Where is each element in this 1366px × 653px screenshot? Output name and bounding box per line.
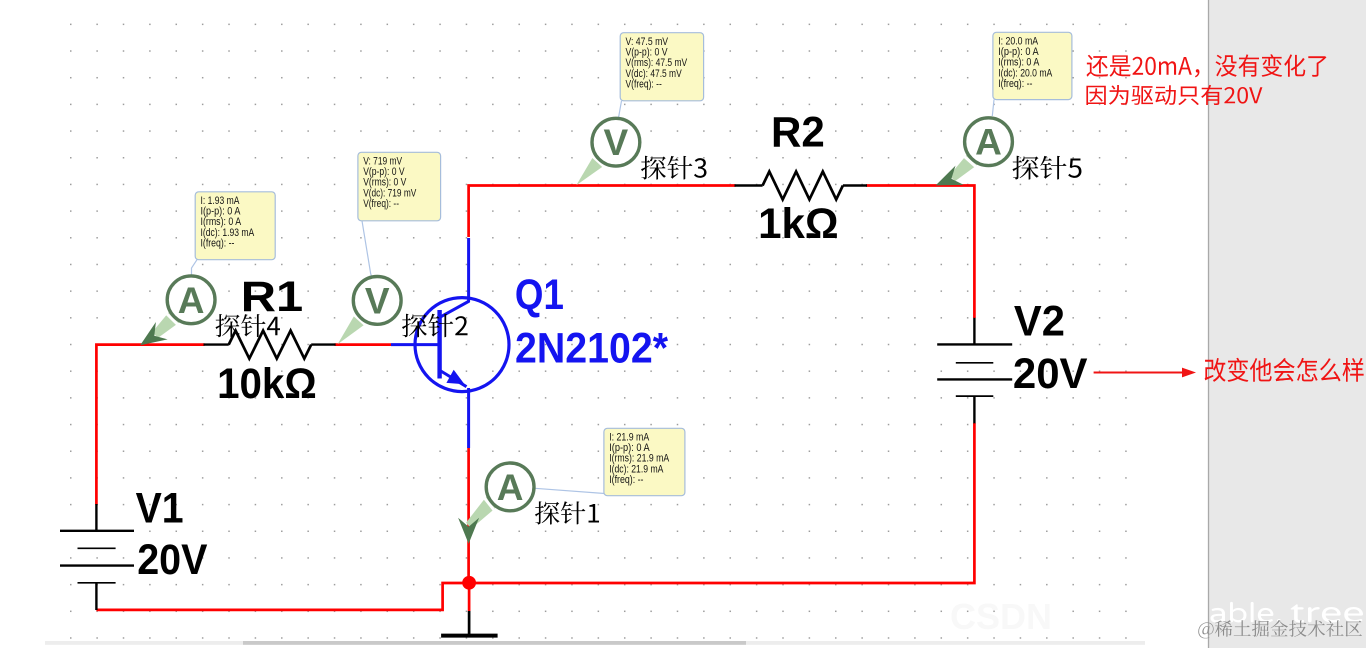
svg-text:CSDN: CSDN — [950, 596, 1052, 637]
wire Q1 emitter down — [467, 447, 470, 583]
svg-text:1kΩ: 1kΩ — [758, 200, 839, 248]
leader line probe 4 tooltip — [192, 260, 198, 275]
probe label 探针4 — [216, 314, 280, 337]
svg-text:V(freq): --: V(freq): -- — [363, 198, 399, 210]
svg-text:A: A — [497, 467, 524, 508]
probe label 探针3 — [641, 156, 706, 180]
svg-text:I(freq): --: I(freq): -- — [609, 474, 644, 486]
leader line probe 1 tooltip — [535, 488, 605, 493]
svg-text:20V: 20V — [137, 536, 207, 584]
tooltip probe 2 (V: 719 mV) — [358, 152, 441, 221]
leader line probe 2 tooltip — [362, 221, 372, 276]
tooltip probe 5 (I: 20.0 mA) — [993, 32, 1072, 99]
voltage probe V (探针2) — [338, 277, 402, 345]
svg-text:R2: R2 — [771, 109, 825, 157]
red note line 1: 还是20mA，没有变化了 — [1086, 54, 1326, 77]
voltage probe V (探针3) — [576, 118, 640, 185]
wire R2 to V2 plus — [866, 186, 974, 319]
transistor Q1 (NPN) — [391, 238, 509, 448]
watermark able.tree — [1211, 602, 1282, 623]
svg-text:R1: R1 — [241, 273, 303, 321]
svg-text:V(freq): --: V(freq): -- — [626, 78, 663, 90]
wire V1 plus to R1 (left vertical + base horizontal) — [96, 345, 204, 505]
svg-text:A: A — [178, 280, 205, 321]
svg-text:V: V — [604, 122, 629, 163]
probe label 探针5 — [1012, 156, 1081, 180]
svg-text:I(freq): --: I(freq): -- — [998, 78, 1033, 90]
current probe A (探针1) — [458, 463, 534, 544]
tooltip probe 3 (V: 47.5 mV) — [620, 33, 703, 101]
svg-text:A: A — [975, 122, 1002, 163]
leader line probe 3 tooltip — [617, 101, 622, 119]
probe label 探针2 — [402, 314, 468, 338]
wire V2 minus to ground node — [469, 423, 974, 583]
battery V2 — [937, 318, 1012, 424]
svg-text:Q1: Q1 — [515, 271, 564, 319]
red note line 2: 因为驱动只有20V — [1086, 85, 1262, 105]
tooltip probe 1 (I: 21.9 mA) — [604, 428, 685, 495]
watermark @稀土掘金技术社区 — [1198, 620, 1362, 638]
probe label 探针1 — [535, 501, 599, 524]
current probe A (探针4) — [140, 276, 215, 345]
current probe A (探针5) — [936, 118, 1013, 186]
bottom horizontal scrollbar — [45, 641, 1145, 645]
red arrow annotation — [1094, 368, 1196, 378]
leader line probe 5 tooltip — [992, 100, 994, 116]
svg-text:I(freq): --: I(freq): -- — [201, 238, 235, 250]
battery V1 — [60, 504, 134, 610]
svg-text:20V: 20V — [1013, 350, 1088, 398]
wire ground node down — [468, 583, 471, 611]
wire V1 minus bottom run — [96, 583, 469, 610]
wire R1 to Q1 base — [335, 343, 391, 346]
svg-text:2N2102*: 2N2102* — [515, 325, 668, 373]
resistor R1 — [204, 331, 336, 359]
tooltip probe 4 (I: 1.93 mA) — [195, 192, 275, 260]
svg-text:V2: V2 — [1014, 297, 1065, 345]
svg-text:V: V — [365, 280, 390, 321]
svg-text:10kΩ: 10kΩ — [217, 360, 317, 408]
junction node (emitter/ground/V1/V2 net) — [462, 576, 476, 590]
red note: 改变他会怎么样 — [1205, 358, 1364, 382]
wire collector top: Q1 to R2 — [469, 186, 736, 238]
resistor R2 — [735, 172, 868, 200]
ground symbol — [441, 611, 498, 636]
right gray side panel — [1208, 0, 1366, 648]
svg-text:V1: V1 — [136, 485, 184, 533]
